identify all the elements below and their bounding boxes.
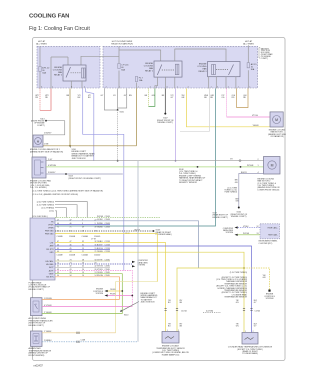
wire BN/BU dashed row (ambient) <box>42 341 138 343</box>
svg-text:C1743: C1743 <box>105 248 110 250</box>
row OG to AC transducer <box>55 277 119 300</box>
svg-text:C1945: C1945 <box>105 272 110 274</box>
svg-text:YE/BU: YE/BU <box>97 241 103 243</box>
row VT/GN dashed pink to AC transducer <box>55 271 132 307</box>
svg-text:1 BN: 1 BN <box>44 144 49 146</box>
svg-text:2 YE/GN: 2 YE/GN <box>44 312 52 314</box>
svg-text:C1444A: C1444A <box>82 235 89 238</box>
svg-text:C1943: C1943 <box>105 219 110 221</box>
svg-text:YE/GN: YE/GN <box>97 272 103 274</box>
battery junction box right section <box>103 46 258 88</box>
row YE to ECT <box>55 243 166 332</box>
svg-text:RELAY 2: RELAY 2 <box>54 73 63 76</box>
svg-text:HS-CAN-: HS-CAN- <box>46 263 54 266</box>
svg-text:C1744: C1744 <box>181 311 187 313</box>
svg-text:YE/GN: YE/GN <box>253 125 260 127</box>
inline connectors C175 on sensor verticals <box>165 308 179 310</box>
svg-text:HIGH CAN+: HIGH CAN+ <box>268 226 278 229</box>
svg-text:(1.5L TWIN TURBO) & (2.0L TWIN: (1.5L TWIN TURBO) & (2.0L TWIN TURBO) (B… <box>33 190 104 193</box>
ground G102 <box>238 207 240 209</box>
svg-text:LOWER FRONT GRILLE): LOWER FRONT GRILLE) <box>258 189 280 191</box>
svg-text:SYSTEM: SYSTEM <box>96 293 104 295</box>
connector id row group A <box>57 235 101 238</box>
svg-text:COMPT): COMPT) <box>37 125 45 127</box>
row yellow VPWR long <box>55 234 157 282</box>
row YE/GN long to CHT <box>55 252 244 332</box>
svg-text:1 YE/BU: 1 YE/BU <box>44 331 52 333</box>
connector id row group B <box>57 254 101 257</box>
row BK/YE ground G103 <box>55 230 153 232</box>
node BN junction <box>69 145 71 147</box>
wire YE dashed branch to engine controls <box>244 268 270 290</box>
svg-text:2: 2 <box>150 86 151 88</box>
wire WT/GN row to motor M2 <box>46 166 264 168</box>
svg-text:5: 5 <box>84 86 85 88</box>
svg-text:VT/OG: VT/OG <box>252 115 258 117</box>
svg-text:SEVERITY SENSOR: SEVERITY SENSOR <box>179 182 197 184</box>
wire YE/GN branch to ECT <box>177 268 244 332</box>
svg-text:C1943: C1943 <box>105 216 110 218</box>
svg-text:m02437: m02437 <box>34 364 44 368</box>
fuse F1.20 feed wire <box>39 46 41 88</box>
svg-text:1: 1 <box>177 86 178 88</box>
svg-text:VPWR: VPWR <box>48 224 54 226</box>
svg-text:GND: GND <box>50 252 55 254</box>
relay R1 (engine cooling fan relay 2) <box>63 65 86 81</box>
wire BK to ground G107 <box>164 89 166 114</box>
CHT sensor box <box>242 333 258 345</box>
svg-text:CYLINDER BANK): CYLINDER BANK) <box>242 352 258 355</box>
row grey-blue to right <box>55 221 199 268</box>
svg-text:17 YE: 17 YE <box>91 239 97 241</box>
svg-text:ALL TIMES: ALL TIMES <box>36 42 47 45</box>
svg-text:VT/BU: VT/BU <box>243 226 249 228</box>
svg-text:SYSTEM: SYSTEM <box>138 265 146 267</box>
wire GN/BU long run to PCM <box>55 89 216 227</box>
wire VT from relay R2 <box>175 89 177 161</box>
svg-text:2 GY: 2 GY <box>48 159 53 161</box>
svg-text:C1743: C1743 <box>105 241 110 243</box>
svg-text:GN/BU: GN/BU <box>97 226 103 228</box>
PCM pin numbers group B <box>57 241 96 253</box>
svg-text:INTAKE MANIFOLD): INTAKE MANIFOLD) <box>162 353 180 356</box>
svg-text:4: 4 <box>217 86 218 88</box>
svg-text:HIGH CAN-: HIGH CAN- <box>268 234 278 237</box>
inline connector C168 <box>77 332 79 343</box>
svg-text:ENGINE COMPT): ENGINE COMPT) <box>213 217 229 219</box>
relay R3 (engine cooling fan relay 3) <box>208 62 240 77</box>
svg-text:S110: S110 <box>124 314 128 316</box>
svg-text:1: 1 <box>52 86 53 88</box>
svg-text:JUNCTION BOX: JUNCTION BOX <box>72 158 87 160</box>
svg-text:2: 2 <box>257 159 258 161</box>
svg-text:S115: S115 <box>120 111 124 113</box>
splice S110 label block <box>69 146 72 147</box>
wire YE/GN row <box>42 313 122 315</box>
svg-text:WT/GN: WT/GN <box>247 165 254 167</box>
pin numbers at BJB exits <box>41 86 250 88</box>
svg-text:C1945: C1945 <box>105 266 110 268</box>
svg-text:(1.5L TWIN TURBO): (1.5L TWIN TURBO) <box>37 205 55 207</box>
node YE/GN branch junction <box>243 267 245 269</box>
svg-text:C1945: C1945 <box>105 259 110 261</box>
node S113 ref dot <box>45 120 47 122</box>
svg-text:4 WT/GN: 4 WT/GN <box>48 165 57 167</box>
fan splitter connector <box>32 157 46 178</box>
fuse F47 feed wire <box>247 45 249 88</box>
svg-text:GY/BU: GY/BU <box>97 219 103 221</box>
svg-text:2: 2 <box>228 86 229 88</box>
svg-text:(1.5L): (1.5L) <box>49 211 54 213</box>
motor M2 (engine cooling fan motor 2, right) <box>264 157 281 175</box>
svg-text:C1945: C1945 <box>105 269 110 271</box>
svg-text:COOLING FAN: COOLING FAN <box>29 13 69 19</box>
wire WH <box>180 89 209 132</box>
IPC row WT/GN stub <box>235 234 238 236</box>
wire GY row to motor M2 <box>46 160 264 162</box>
svg-text:GY/YE: GY/YE <box>97 259 103 261</box>
svg-text:YE/GN: YE/GN <box>97 251 103 253</box>
fuse F1.16 feed wire <box>118 46 120 88</box>
wire YE/GN to motor M3 <box>186 89 270 127</box>
svg-text:CYLINDER HEAD): CYLINDER HEAD) <box>156 233 172 236</box>
wire BU/GY row <box>46 173 123 175</box>
wire BN to motor M1 <box>40 145 137 147</box>
svg-text:Fig 1: Cooling Fan Circuit: Fig 1: Cooling Fan Circuit <box>29 26 90 32</box>
wire GY/BU vertical to ambient <box>137 161 139 342</box>
svg-text:2: 2 <box>106 86 107 88</box>
svg-text:C1444D: C1444D <box>94 255 101 257</box>
svg-text:(1.5L TWIN TURBO): (1.5L TWIN TURBO) <box>230 272 248 274</box>
diagram frame <box>33 38 286 361</box>
svg-text:SIG RTN: SIG RTN <box>46 277 54 279</box>
relay R3 lower pins <box>209 77 236 89</box>
IPC box (instrument panel cluster) <box>260 224 280 239</box>
ground G107 <box>164 113 166 115</box>
svg-text:1: 1 <box>250 86 251 88</box>
wire BU/GY hook from motor M1 pin 2 <box>43 121 65 135</box>
wire GY dashed from S115 down <box>117 110 119 161</box>
node S113 <box>65 173 67 175</box>
svg-text:2 BN/BU: 2 BN/BU <box>44 340 52 342</box>
svg-text:RELAY 3: RELAY 3 <box>198 70 207 73</box>
svg-text:C1943: C1943 <box>105 226 110 228</box>
svg-text:1: 1 <box>211 86 212 88</box>
svg-text:1: 1 <box>257 165 258 167</box>
svg-text:BU/GY: BU/GY <box>97 244 103 246</box>
svg-text:JUNCTION BOX: JUNCTION BOX <box>141 302 156 304</box>
svg-text:ENGINE COMPT): ENGINE COMPT) <box>231 216 247 218</box>
svg-text:49: 49 <box>82 227 84 229</box>
svg-text:(2.5L HYBRID): (2.5L HYBRID) <box>41 208 54 210</box>
svg-text:1: 1 <box>238 86 239 88</box>
relay R2 (engine cooling fan relay 1) <box>154 61 182 77</box>
wire RD/GN row <box>42 299 119 301</box>
svg-text:(2.0L TWIN TURBO): (2.0L TWIN TURBO) <box>37 201 55 203</box>
svg-text:BU/OG: BU/OG <box>97 248 103 250</box>
svg-text:C1943: C1943 <box>105 223 110 225</box>
svg-text:TEMPERATURE SENSOR: TEMPERATURE SENSOR <box>224 296 247 299</box>
relay R2 top pin bus to relay R3 <box>175 49 226 62</box>
row blue WT/BU <box>55 224 110 226</box>
wire WT/RD loop (dashed leg) <box>39 89 41 111</box>
svg-text:BU/YE: BU/YE <box>135 229 141 231</box>
svg-text:WT/GN: WT/GN <box>243 233 250 235</box>
pale yellow link to ambient sensor <box>116 282 158 333</box>
svg-text:PWR GND: PWR GND <box>45 233 54 235</box>
PCM box <box>30 218 55 280</box>
svg-text:12: 12 <box>257 226 259 228</box>
AC pressure transducer box <box>31 298 43 316</box>
relay R1 lower pins <box>71 81 82 89</box>
wire OG/RD loop <box>237 89 248 108</box>
svg-text:RELAY 1: RELAY 1 <box>145 69 154 72</box>
fuse F47 <box>247 63 249 68</box>
svg-text:C1945: C1945 <box>105 275 110 277</box>
svg-text:VPWR: VPWR <box>48 227 54 229</box>
svg-text:C1745: C1745 <box>255 311 261 313</box>
wire BN from relay R1 <box>69 89 71 146</box>
node S108 <box>197 166 199 168</box>
PCM pin number row (top group) <box>57 219 96 232</box>
fuse F1.20 <box>39 67 41 72</box>
svg-text:ENGINE COMPT): ENGINE COMPT) <box>158 122 174 124</box>
svg-text:3: 3 <box>71 86 72 88</box>
wire VT/BU 1 from relay R1 <box>83 89 124 271</box>
svg-text:HS-CAN+: HS-CAN+ <box>46 260 54 263</box>
ambient air temperature sensor box <box>31 331 43 346</box>
svg-text:FRONT BUMPER): FRONT BUMPER) <box>29 355 45 357</box>
svg-text:C1444A: C1444A <box>82 254 89 257</box>
row YE/GN green to AC transducer <box>55 274 122 314</box>
svg-text:C1444E: C1444E <box>57 236 64 238</box>
wire GN loop (solid leg + bottom) <box>149 89 155 107</box>
svg-text:ENGINE COMPT): ENGINE COMPT) <box>29 325 45 327</box>
svg-text:M: M <box>271 164 274 168</box>
svg-text:71: 71 <box>70 227 72 229</box>
svg-text:(1.5L FLEX FUEL): (1.5L FLEX FUEL) <box>32 216 48 218</box>
svg-text:M: M <box>275 118 278 122</box>
svg-text:SIG RTN: SIG RTN <box>46 249 54 251</box>
wire labels on ECT/CHT verticals <box>168 300 257 328</box>
svg-text:WT/BU: WT/BU <box>97 223 103 225</box>
svg-text:OG: OG <box>221 97 224 99</box>
svg-text:C1743: C1743 <box>105 244 110 246</box>
BJB name label (right side) <box>259 48 260 59</box>
wire GY pair to splice S115 <box>104 89 117 111</box>
svg-text:(1.5L & 2.0L) (BEHIND CENTER: (1.5L & 2.0L) (BEHIND CENTER OF FRONT GR… <box>33 194 79 196</box>
svg-text:2.0L, 2.5L HYBRID): 2.0L, 2.5L HYBRID) <box>30 187 47 189</box>
svg-text:(BEHIND RIGHT SIDE OF RADIATOR: (BEHIND RIGHT SIDE OF RADIATOR) <box>30 150 63 153</box>
S110 pointer arrow <box>121 302 140 312</box>
wire BK/GN from motor M2 to ground <box>239 174 264 208</box>
PCM internal pin names <box>45 221 55 278</box>
wire YE/BU row (ambient) <box>42 332 116 334</box>
svg-text:(C175B): (C175B) <box>206 311 213 313</box>
svg-text:WT/GN: WT/GN <box>97 216 104 218</box>
row 1.5L flex fuel (dashed green) <box>55 217 160 219</box>
row GY/YE <box>55 260 110 262</box>
svg-text:3: 3 <box>167 86 168 88</box>
row grey short <box>55 266 110 268</box>
wire VT/GN row <box>42 305 132 307</box>
row BU short <box>55 248 110 250</box>
variant tie dashed <box>203 312 221 314</box>
svg-text:C1444E: C1444E <box>57 255 64 257</box>
node S161 <box>240 166 242 168</box>
svg-text:C1743: C1743 <box>105 251 110 253</box>
wire to relay 1 <box>51 57 68 89</box>
battery junction box left section <box>37 46 100 88</box>
svg-text:1: 1 <box>119 86 120 88</box>
PCM pin numbers group C <box>57 259 96 277</box>
node S115 <box>117 109 119 111</box>
row CAN bus stub with arrows <box>55 263 132 265</box>
svg-text:13: 13 <box>257 233 259 235</box>
svg-text:2: 2 <box>188 86 189 88</box>
motor M3 (engine cooling fan motor 3, top right) <box>270 112 283 127</box>
svg-text:3 BU/GY: 3 BU/GY <box>48 172 56 174</box>
wire GN loop (dashed leg) <box>148 89 150 107</box>
svg-text:SYSTEM: SYSTEM <box>226 232 234 234</box>
svg-text:RD/GN: RD/GN <box>97 275 103 277</box>
svg-text:1: 1 <box>138 86 139 88</box>
svg-text:TWIN TURBO): TWIN TURBO) <box>224 192 237 194</box>
svg-text:C1444B: C1444B <box>69 255 76 257</box>
svg-text:GY/OG: GY/OG <box>97 266 103 268</box>
svg-text:SYSTEM: SYSTEM <box>266 298 274 300</box>
ECT sensor box <box>162 332 179 344</box>
row BU to CHT <box>55 246 252 333</box>
svg-text:VT/GN: VT/GN <box>97 269 103 271</box>
relay R2 lower pins <box>155 77 158 88</box>
svg-text:RELAY IN START/RUN: RELAY IN START/RUN <box>111 42 133 45</box>
IPC row VT/BU stub <box>235 226 238 228</box>
svg-text:OF RADIATOR): OF RADIATOR) <box>270 135 284 138</box>
svg-text:COMPT): COMPT) <box>261 58 268 60</box>
inline connector on GY row <box>239 160 241 162</box>
svg-text:(RIGHT FRONT OF ENGINE COMPT): (RIGHT FRONT OF ENGINE COMPT) <box>69 178 102 180</box>
svg-text:C168: C168 <box>81 339 86 341</box>
wire WT/RD loop (solid leg + bottom) <box>40 89 51 111</box>
motor M1 (engine cooling fan motor 1, left) <box>33 135 43 147</box>
fuse F1.16 <box>118 64 120 69</box>
svg-text:PWR GND: PWR GND <box>45 230 54 232</box>
fuse F1.7 <box>136 83 138 89</box>
wire VT/OG to motor M3 <box>226 89 228 118</box>
wire BN from fuse F1.7 <box>136 89 138 146</box>
svg-text:71: 71 <box>57 227 59 229</box>
wire relay1 pin 87 bus <box>81 56 119 65</box>
bus fuse to relay R2 <box>119 50 161 61</box>
svg-text:4 VT/GN: 4 VT/GN <box>44 305 52 307</box>
svg-text:1 RD/GN: 1 RD/GN <box>44 298 52 300</box>
svg-text:3: 3 <box>41 86 42 88</box>
svg-text:C1444B: C1444B <box>69 236 76 238</box>
wire VT/BU 2 <box>86 89 94 161</box>
svg-text:ALL TIMES: ALL TIMES <box>243 42 254 45</box>
svg-text:4: 4 <box>156 86 157 88</box>
svg-text:ENGINE COMPT): ENGINE COMPT) <box>29 289 45 291</box>
svg-text:2 BU/GY: 2 BU/GY <box>44 133 52 135</box>
svg-text:CLUSTER (IPC): CLUSTER (IPC) <box>259 243 273 245</box>
